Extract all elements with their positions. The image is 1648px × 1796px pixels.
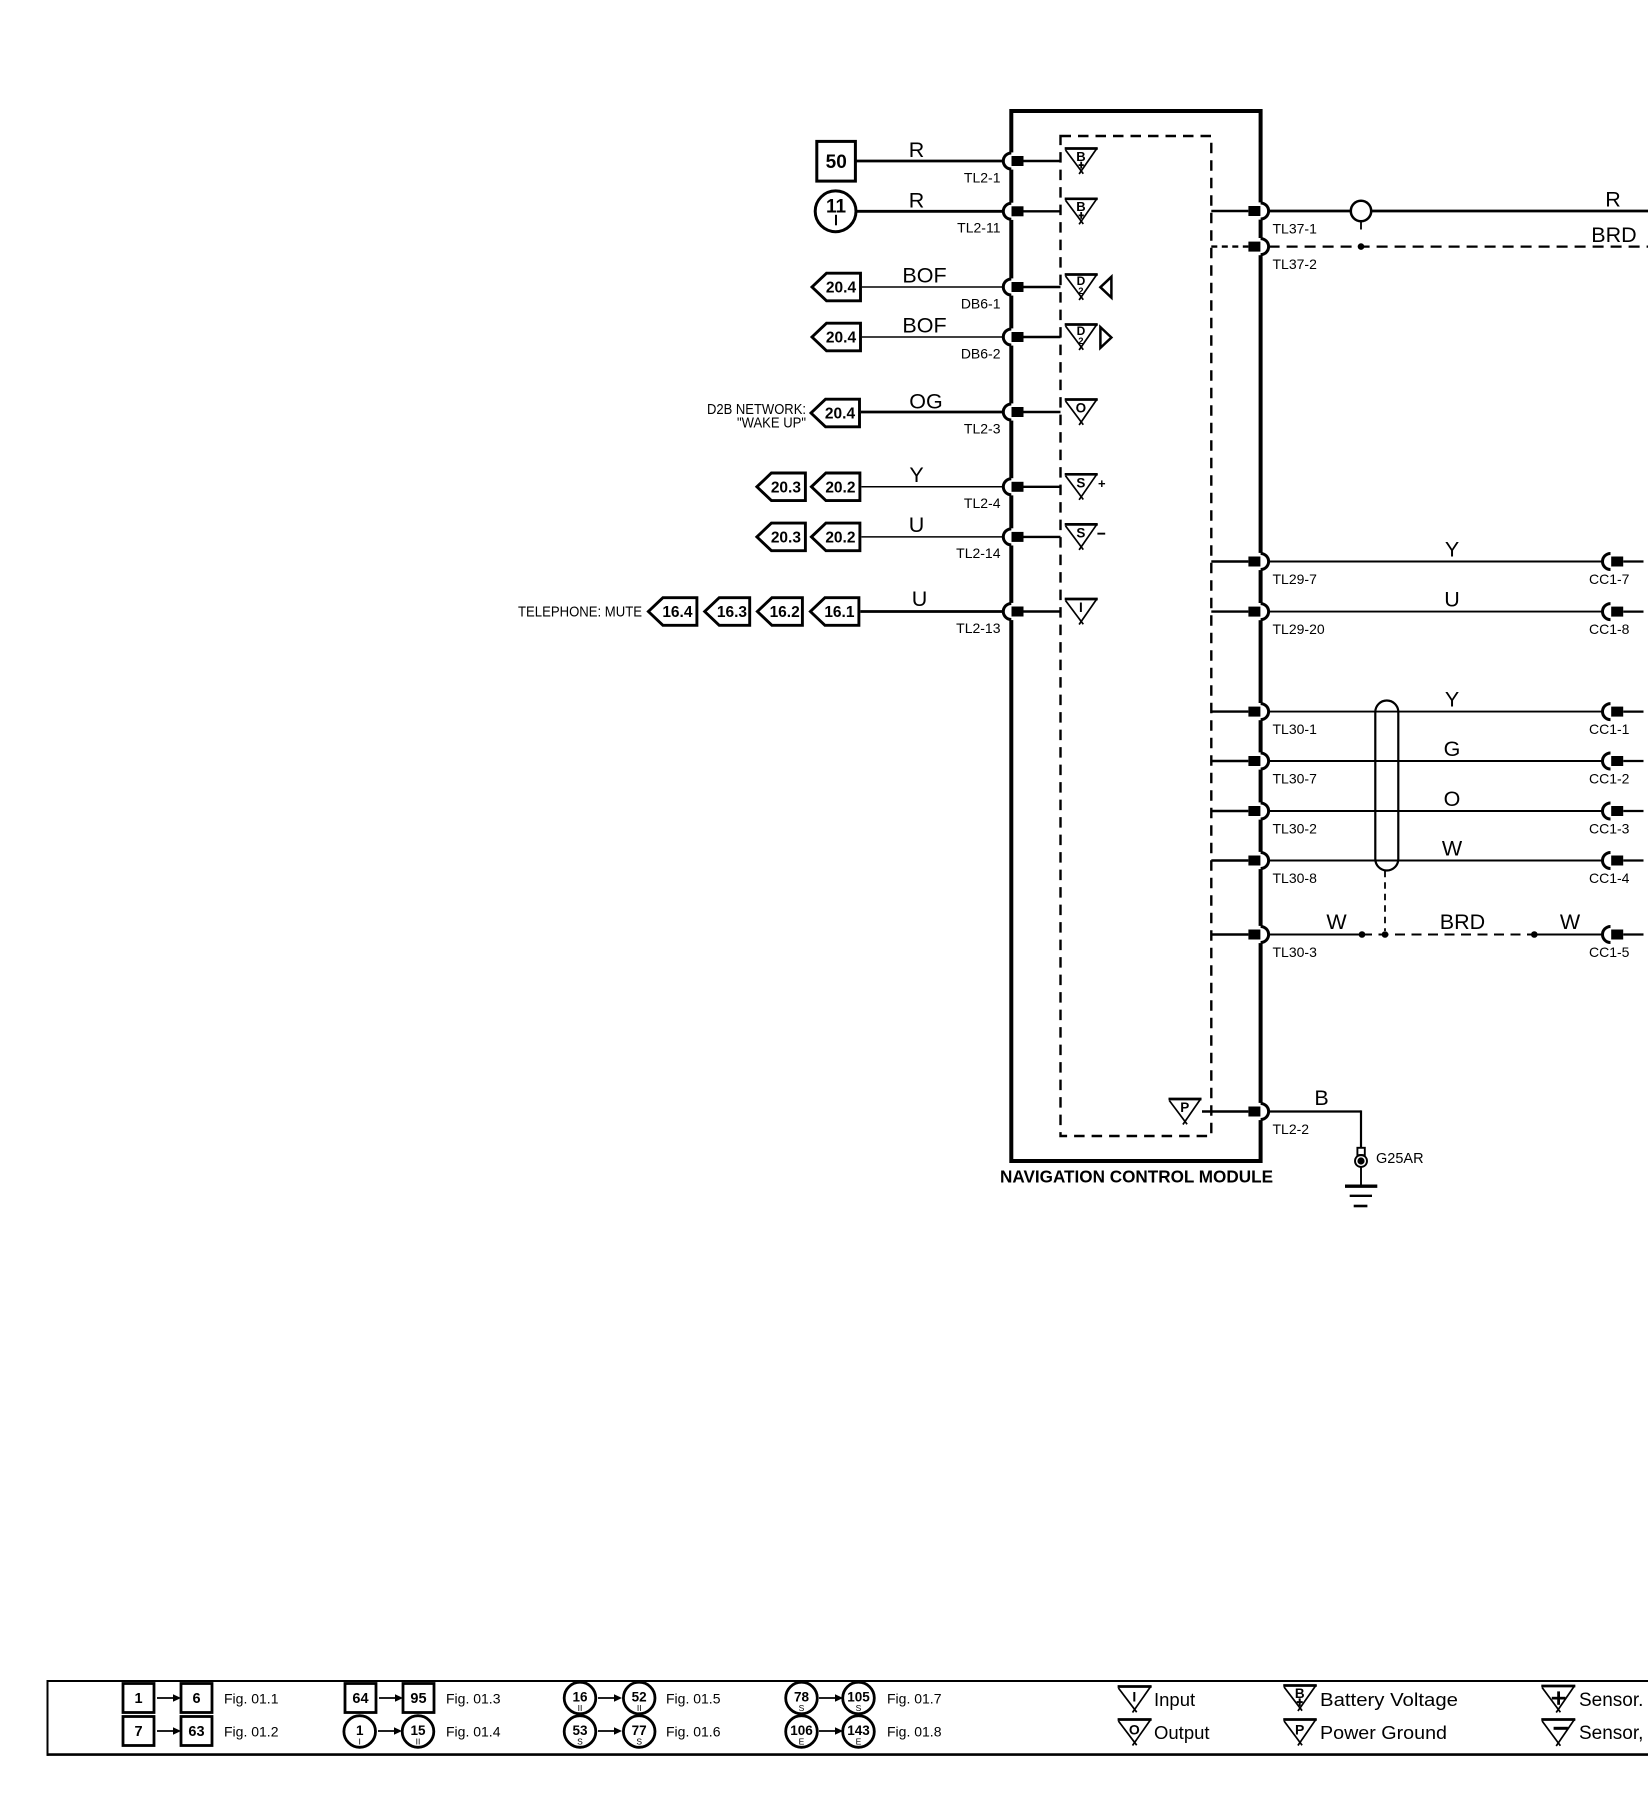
pin TL30-3	[1211, 926, 1317, 960]
wire OG to pin TL2-3	[861, 411, 1003, 414]
pin TL2-2	[1248, 1103, 1309, 1137]
off-page tag 16.1 (TL2-13)	[810, 598, 859, 626]
connector CC1-1	[1589, 704, 1644, 737]
pin TL30-7	[1211, 752, 1317, 786]
pin TL2-13	[956, 603, 1060, 636]
svg-text:B: B	[1076, 149, 1085, 164]
svg-text:U: U	[909, 513, 925, 537]
svg-text:Sensor,: Sensor,	[1579, 1723, 1643, 1744]
svg-text:Fig. 01.3: Fig. 01.3	[446, 1690, 501, 1706]
svg-text:TL29-7: TL29-7	[1273, 571, 1318, 587]
svg-text:O: O	[1444, 787, 1461, 811]
off-page tag 16.4 (TL2-13)	[648, 598, 697, 626]
svg-text:16.4: 16.4	[662, 604, 693, 621]
svg-text:TL2-2: TL2-2	[1273, 1121, 1310, 1137]
connector CC1-5	[1589, 927, 1644, 960]
svg-text:CC1-2: CC1-2	[1589, 770, 1630, 786]
svg-text:W: W	[1560, 910, 1581, 934]
svg-text:Fig. 01.1: Fig. 01.1	[224, 1690, 279, 1706]
legend arrow 1-15	[378, 1730, 396, 1732]
wire BRD (dashed) from pin TL37-2 to right edge	[1269, 245, 1648, 247]
svg-text:S: S	[1076, 475, 1085, 490]
svg-text:20.3: 20.3	[771, 529, 802, 546]
legend battery voltage symbol B+	[1283, 1685, 1317, 1711]
twisted/shielded pair capsule around TL30 wires	[1375, 701, 1398, 871]
svg-text:20.4: 20.4	[825, 406, 856, 423]
svg-text:Fig. 01.5: Fig. 01.5	[666, 1690, 721, 1706]
legend arrow 64-95	[379, 1697, 397, 1699]
svg-text:20.4: 20.4	[826, 330, 857, 347]
svg-text:S: S	[856, 1703, 862, 1713]
svg-text:TL29-20: TL29-20	[1273, 621, 1325, 637]
svg-text:DB6-1: DB6-1	[961, 295, 1001, 311]
svg-text:11: 11	[826, 197, 847, 218]
legend sensor - symbol	[1541, 1719, 1575, 1746]
svg-text:CC1-5: CC1-5	[1589, 944, 1630, 960]
D2B bus symbol D2 at DB6-2	[1065, 324, 1098, 350]
svg-text:2: 2	[1078, 336, 1083, 347]
svg-text:95: 95	[410, 1691, 426, 1707]
off-page tag 16.2 (TL2-13)	[757, 598, 802, 626]
connector CC1-8	[1589, 604, 1644, 637]
legend sensor + symbol	[1541, 1685, 1575, 1712]
ground symbol	[1345, 1167, 1377, 1206]
wire U to pin TL2-13	[860, 610, 1003, 613]
svg-text:G: G	[1444, 737, 1461, 761]
svg-text:20.4: 20.4	[826, 280, 857, 297]
pin DB6-1	[961, 278, 1061, 311]
svg-text:TL2-11: TL2-11	[957, 220, 1001, 236]
splice dot BRD/W (right)	[1531, 931, 1538, 938]
svg-text:1: 1	[134, 1691, 142, 1707]
svg-text:TL30-2: TL30-2	[1273, 821, 1318, 837]
wire W from pin TL30-8 to CC1-4	[1269, 860, 1603, 862]
wire Y from pin TL29-7 to CC1-7	[1269, 561, 1603, 563]
svg-text:Input: Input	[1154, 1689, 1195, 1710]
power ground symbol P at TL2-2	[1169, 1098, 1202, 1124]
svg-text:U: U	[1444, 588, 1460, 612]
svg-text:TL30-7: TL30-7	[1273, 771, 1318, 787]
legend power ground symbol P	[1283, 1719, 1317, 1746]
svg-text:TL2-4: TL2-4	[964, 495, 1001, 511]
svg-text:OG: OG	[909, 390, 942, 414]
D2B direction arrow (right) at DB6-2	[1100, 327, 1111, 348]
input symbol I at TL2-13	[1065, 598, 1098, 624]
wire Y to pin TL2-4	[861, 486, 1003, 488]
off-page tag 20.4 (DB6-1)	[812, 273, 861, 301]
legend arrow 53-77	[598, 1730, 616, 1732]
sensor symbol S at TL2-4	[1065, 474, 1098, 500]
svg-text:+: +	[1098, 476, 1106, 491]
wire BRD (dashed) middle segment	[1362, 934, 1534, 936]
wire BOF to pin DB6-1	[862, 286, 1003, 288]
connector CC1-3	[1589, 803, 1644, 836]
svg-text:I: I	[359, 1737, 361, 1747]
wire BOF to pin DB6-2	[862, 336, 1003, 338]
wire G from pin TL30-7 to CC1-2	[1269, 760, 1603, 762]
junction dot at shield drain on BRD	[1382, 931, 1389, 938]
svg-text:G25AR: G25AR	[1376, 1151, 1424, 1167]
legend connector circle 77/S	[623, 1716, 655, 1748]
pin DB6-2	[961, 328, 1061, 361]
svg-text:P: P	[1295, 1722, 1304, 1738]
svg-text:"WAKE UP": "WAKE UP"	[737, 415, 806, 432]
svg-text:CC1-3: CC1-3	[1589, 820, 1630, 836]
svg-text:7: 7	[134, 1724, 142, 1740]
svg-text:TL2-13: TL2-13	[956, 620, 1001, 636]
legend arrow 16-52	[598, 1697, 616, 1699]
legend output symbol	[1118, 1719, 1152, 1746]
svg-text:I: I	[1079, 600, 1083, 615]
legend connector circle 143/E	[843, 1716, 875, 1748]
legend connector circle 1/I	[344, 1716, 376, 1748]
svg-text:Fig. 01.4: Fig. 01.4	[446, 1723, 501, 1739]
svg-text:Output: Output	[1154, 1722, 1210, 1743]
module internal dashed boundary	[1061, 136, 1212, 1136]
pin TL29-20	[1211, 603, 1325, 637]
svg-text:TL30-1: TL30-1	[1273, 721, 1318, 737]
wire R from fuse 50 to pin TL2-1	[857, 160, 1004, 163]
off-page tag 20.2 (TL2-14)	[811, 523, 860, 551]
legend connector square 1	[123, 1684, 154, 1713]
shield drain (dashed) from capsule to BRD splice	[1384, 871, 1386, 931]
legend connector circle 105/S	[843, 1682, 875, 1714]
svg-text:II: II	[637, 1703, 642, 1713]
svg-text:TELEPHONE: MUTE: TELEPHONE: MUTE	[518, 604, 642, 621]
svg-text:R: R	[1605, 188, 1621, 212]
svg-text:16.3: 16.3	[717, 604, 748, 621]
splice tail from inline connector to BRD wire	[1358, 221, 1365, 250]
wire R from pin TL37-1 (segment to inline connector)	[1269, 210, 1351, 213]
connector CC1-7	[1589, 554, 1644, 587]
svg-text:20.2: 20.2	[825, 479, 855, 496]
wire U from pin TL29-20 to CC1-8	[1269, 611, 1603, 613]
wire B from pin TL2-2 to ground	[1269, 1110, 1361, 1148]
svg-text:Y: Y	[909, 463, 923, 487]
svg-text:TL30-3: TL30-3	[1273, 944, 1318, 960]
legend input symbol	[1118, 1686, 1152, 1713]
svg-text:20.3: 20.3	[771, 479, 802, 496]
svg-text:BRD: BRD	[1440, 910, 1485, 934]
legend arrow 106-143	[819, 1730, 837, 1732]
legend connector square 63	[181, 1717, 212, 1746]
legend connector circle 16/II	[564, 1682, 596, 1714]
output symbol O at TL2-3	[1065, 399, 1098, 425]
legend connector circle 15/II	[402, 1716, 434, 1748]
svg-text:CC1-4: CC1-4	[1589, 870, 1630, 886]
svg-text:BOF: BOF	[902, 314, 946, 338]
legend connector circle 78/S	[786, 1682, 818, 1714]
svg-text:B: B	[1314, 1086, 1328, 1110]
battery voltage symbol B+ at TL2-1	[1065, 148, 1098, 174]
svg-text:TL37-2: TL37-2	[1273, 256, 1318, 272]
off-page tag 20.4 (DB6-2)	[812, 323, 861, 351]
off-page tag 20.2 (TL2-4)	[811, 473, 860, 501]
svg-text:TL37-1: TL37-1	[1273, 221, 1318, 237]
pin TL2-3	[964, 403, 1061, 436]
ground terminal G25AR (eyelet)	[1355, 1148, 1367, 1167]
svg-text:E: E	[799, 1737, 805, 1747]
fuse box 50	[817, 141, 856, 181]
svg-text:S: S	[577, 1737, 583, 1747]
svg-text:64: 64	[352, 1691, 368, 1707]
inline connector (circle) on wire R	[1351, 201, 1371, 221]
legend arrow 1-6	[157, 1697, 175, 1699]
legend connector circle 53/S	[564, 1716, 596, 1748]
svg-text:II: II	[416, 1737, 421, 1747]
pin TL30-8	[1211, 852, 1317, 886]
svg-text:Fig. 01.2: Fig. 01.2	[224, 1723, 279, 1739]
svg-text:O: O	[1129, 1722, 1140, 1738]
D2B direction arrow (left) at DB6-1	[1100, 277, 1111, 298]
svg-text:50: 50	[826, 152, 847, 173]
net label D2B NETWORK: "WAKE UP"	[707, 401, 806, 432]
svg-text:20.2: 20.2	[825, 529, 855, 546]
wire R from connector 11 to pin TL2-11	[856, 210, 1003, 213]
pin TL2-11	[957, 203, 1060, 236]
svg-text:Fig. 01.8: Fig. 01.8	[887, 1723, 942, 1739]
off-page tag 20.4 (TL2-3)	[811, 399, 860, 427]
pin TL29-7	[1211, 553, 1317, 587]
svg-text:Y: Y	[1445, 688, 1459, 712]
svg-text:6: 6	[192, 1691, 200, 1707]
svg-text:TL2-14: TL2-14	[956, 545, 1001, 561]
svg-text:NAVIGATION CONTROL MODULE: NAVIGATION CONTROL MODULE	[1000, 1167, 1273, 1187]
svg-text:2: 2	[1078, 286, 1083, 297]
svg-text:CC1-1: CC1-1	[1589, 721, 1630, 737]
svg-text:O: O	[1076, 401, 1087, 416]
svg-text:TL2-1: TL2-1	[964, 169, 1001, 185]
legend connector square 7	[123, 1717, 154, 1746]
pin TL37-1	[1211, 202, 1317, 236]
svg-text:16.1: 16.1	[824, 604, 855, 621]
svg-text:16.2: 16.2	[770, 604, 800, 621]
wire R continuing to right edge	[1371, 210, 1648, 213]
connector CC1-2	[1589, 753, 1644, 786]
pin TL37-2	[1211, 238, 1317, 272]
sensor symbol S at TL2-14	[1065, 524, 1098, 550]
svg-text:W: W	[1326, 910, 1347, 934]
inline connector 11 (circle, numeral I)	[815, 191, 856, 232]
legend connector square 95	[403, 1684, 434, 1713]
legend connector square 64	[345, 1684, 376, 1713]
pin TL2-14	[956, 528, 1060, 561]
legend arrow 78-105	[819, 1697, 837, 1699]
svg-text:Power Ground: Power Ground	[1320, 1722, 1447, 1743]
pin TL30-1	[1211, 703, 1317, 737]
svg-text:Fig. 01.6: Fig. 01.6	[666, 1723, 721, 1739]
svg-text:Y: Y	[1445, 538, 1459, 562]
svg-text:I: I	[1132, 1689, 1136, 1705]
svg-text:P: P	[1180, 1100, 1189, 1115]
pin TL2-4	[964, 478, 1061, 511]
svg-text:S: S	[799, 1703, 805, 1713]
wire O from pin TL30-2 to CC1-3	[1269, 810, 1603, 812]
connector CC1-4	[1589, 853, 1644, 886]
svg-text:CC1-7: CC1-7	[1589, 571, 1630, 587]
svg-text:Fig. 01.7: Fig. 01.7	[887, 1690, 942, 1706]
pin TL30-2	[1211, 802, 1317, 836]
wire W from pin TL30-3 (left segment)	[1269, 934, 1362, 936]
wire W to CC1-5	[1534, 934, 1602, 936]
wire from P symbol to pin TL2-2	[1202, 1110, 1248, 1112]
D2B bus symbol D2 at DB6-1	[1065, 274, 1098, 300]
svg-text:Battery Voltage: Battery Voltage	[1320, 1689, 1458, 1710]
svg-text:W: W	[1442, 837, 1463, 861]
svg-text:R: R	[909, 138, 925, 162]
sensor polarity - at TL2-14	[1097, 533, 1105, 535]
svg-text:63: 63	[188, 1724, 204, 1740]
svg-text:TL30-8: TL30-8	[1273, 870, 1318, 886]
svg-text:BRD: BRD	[1591, 223, 1636, 247]
svg-text:U: U	[912, 587, 928, 611]
svg-text:R: R	[909, 188, 925, 212]
wire Y from pin TL30-1 to CC1-1	[1269, 711, 1603, 713]
svg-text:CC1-8: CC1-8	[1589, 621, 1630, 637]
svg-text:BOF: BOF	[902, 264, 946, 288]
svg-text:E: E	[856, 1737, 862, 1747]
legend connector circle 52/II	[623, 1682, 655, 1714]
svg-text:TL2-3: TL2-3	[964, 420, 1001, 436]
splice dot W/BRD (left)	[1359, 931, 1366, 938]
svg-text:Sensor.: Sensor.	[1579, 1690, 1643, 1711]
wire U to pin TL2-14	[861, 536, 1003, 538]
navigation control module U1 body outline	[1011, 111, 1260, 1161]
svg-text:II: II	[578, 1703, 583, 1713]
svg-text:S: S	[1076, 525, 1085, 540]
legend arrow 7-63	[157, 1730, 175, 1732]
pin TL2-1	[964, 152, 1061, 185]
svg-text:S: S	[636, 1737, 642, 1747]
svg-text:DB6-2: DB6-2	[961, 345, 1001, 361]
legend frame	[48, 1680, 1648, 1756]
legend connector square 6	[181, 1684, 212, 1713]
legend connector circle 106/E	[786, 1716, 818, 1748]
battery voltage symbol B+ at TL2-11	[1065, 198, 1098, 224]
off-page tag 16.3 (TL2-13)	[705, 598, 750, 626]
off-page tag 20.3 (TL2-14)	[757, 523, 806, 551]
off-page tag 20.3 (TL2-4)	[757, 473, 806, 501]
svg-text:B: B	[1076, 199, 1085, 214]
